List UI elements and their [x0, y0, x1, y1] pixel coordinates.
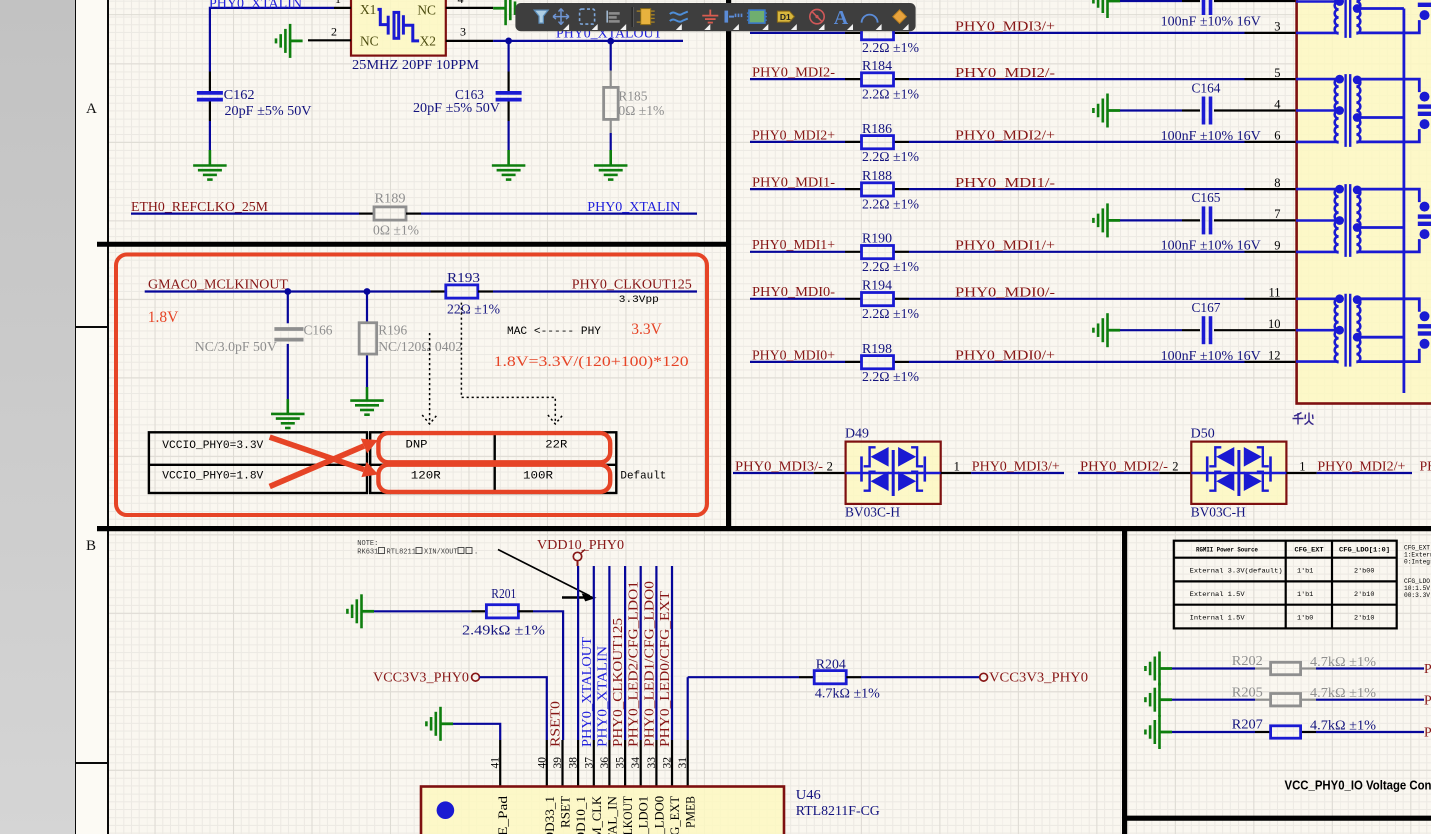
svg-text:39: 39 [552, 757, 564, 769]
junction at R185 [607, 38, 614, 45]
svg-text:4: 4 [1274, 97, 1281, 111]
svg-text:2'b10: 2'b10 [1354, 591, 1374, 599]
net name PHY0_MDI3/- [735, 458, 823, 473]
svg-text:CFG_LDO0: CFG_LDO0 [651, 796, 666, 834]
svg-text:VCCIO_PHY0=1.8V: VCCIO_PHY0=1.8V [162, 470, 263, 482]
value 2.2ohm 1% row pin 11 [862, 306, 919, 321]
annotation voltage divider formula [494, 353, 689, 370]
svg-text:PHY0_XTALIN: PHY0_XTALIN [594, 646, 609, 747]
pin number 1 of D49 [954, 459, 960, 473]
svg-text:PHY0_MDI0-: PHY0_MDI0- [752, 284, 835, 299]
net label PHY0_XTALIN (top) [209, 0, 302, 12]
U46 pin name RSET [558, 796, 573, 828]
pin number 11 on transformer [1268, 286, 1280, 300]
pin number 3 on transformer [1274, 20, 1280, 34]
table text VCCIO_PHY0=3.3V [162, 440, 263, 452]
svg-text:PHY0_MDI0/-: PHY0_MDI0/- [955, 285, 1055, 300]
svg-text:4.7kΩ ±1%: 4.7kΩ ±1% [1310, 654, 1377, 669]
label R194 [862, 278, 892, 293]
table header RGMII Power Source [1196, 547, 1258, 554]
value C162 20pF 5% 50V [225, 103, 312, 118]
svg-text:MAC <----- PHY: MAC <----- PHY [507, 326, 601, 338]
label D49 [845, 426, 869, 441]
floating toolbar [515, 3, 915, 31]
svg-text:CFG_EXT: CFG_EXT [1404, 545, 1430, 552]
U46 pin 38 [568, 740, 580, 787]
pin number 8 on transformer [1274, 176, 1280, 190]
svg-text:1:Externa: 1:Externa [1404, 552, 1431, 559]
svg-text:P: P [1424, 725, 1431, 740]
wire ground to E_Pad pin [453, 724, 500, 740]
svg-text:CFG_LDO: CFG_LDO [1404, 578, 1430, 585]
svg-text:NC: NC [360, 34, 379, 49]
wire to U46 pin 34 [640, 566, 642, 740]
svg-text:6: 6 [1274, 129, 1280, 143]
svg-text:C162: C162 [224, 88, 255, 103]
svg-text:D1: D1 [780, 12, 791, 22]
svg-text:25M_CLK: 25M_CLK [589, 795, 604, 834]
svg-text:1'b1: 1'b1 [1297, 591, 1313, 599]
wire C167 row [1120, 329, 1296, 331]
ground for R202 [1145, 652, 1172, 686]
svg-text:PHY0_MDI0/+: PHY0_MDI0/+ [955, 348, 1055, 363]
value R196 NC/120ohm 0402 [378, 339, 462, 354]
net label PHY0_LED2/CFG_LDO1 (vertical) [626, 581, 641, 747]
svg-text:CFG_LDO[1:0]: CFG_LDO[1:0] [1339, 547, 1390, 554]
wire to U46 pin 36 [608, 566, 610, 740]
capacitor C164 [1204, 97, 1211, 125]
annotation arrow to XTAL pins [498, 550, 595, 601]
ground for C165 [1093, 203, 1120, 237]
capacitor C167 [1204, 316, 1211, 344]
partial top capacitor [1204, 0, 1211, 15]
svg-text:D49: D49 [845, 426, 869, 441]
wire pin31 to R204 [688, 676, 814, 678]
value 2.2ohm 1% row pin 6 [862, 149, 919, 164]
transformer T2 [1296, 74, 1431, 147]
wire C165 row [1120, 219, 1296, 221]
table text Default [620, 470, 666, 482]
crystal X? component box [351, 0, 446, 56]
net label PHY0_LED1/CFG_LDO0 (vertical) [641, 581, 656, 747]
svg-text:D50: D50 [1191, 426, 1215, 441]
label R185 [618, 88, 647, 103]
wire PHY0 MDI row pin 11 [750, 298, 1296, 300]
capacitor C162 branch wire [209, 72, 211, 166]
U46 pin 41 [490, 740, 502, 787]
note text RK631/RTL8211 XIN XOUT [357, 540, 478, 557]
wire to U46 pin 31 from R204 [687, 677, 689, 740]
resistor R186 2.2ohm [862, 136, 894, 149]
TVS diode array D50 box [1191, 442, 1286, 504]
capacitor C162 [197, 93, 223, 100]
net label PHY0_XTALOUT (vertical) [579, 636, 594, 747]
value R201 2.49kohm 1% [462, 623, 546, 638]
zone letter A [86, 101, 106, 118]
wire to U46 pin 33 [655, 566, 657, 740]
wire PHY0_XTALIN to X? pin 1 [210, 8, 334, 72]
net name PHY0_MDI2+ [752, 127, 835, 142]
table header CFG_EXT [1295, 547, 1324, 554]
svg-text:2.2Ω ±1%: 2.2Ω ±1% [862, 306, 919, 321]
svg-text:CLKOUT: CLKOUT [620, 796, 635, 834]
value C167 100nF 10% 16V [1161, 348, 1261, 363]
svg-text:PHY0_MDI1/+: PHY0_MDI1/+ [955, 238, 1055, 253]
net name PHY0_MDI1/- [955, 175, 1055, 190]
svg-text:External 3.3V(default): External 3.3V(default) [1190, 568, 1283, 576]
svg-text:PHY0_MDI0+: PHY0_MDI0+ [752, 347, 835, 362]
value 2.2ohm 1% row pin 9 [862, 259, 919, 274]
svg-text:0:Integra: 0:Integra [1404, 559, 1431, 566]
ground for C164 [1093, 94, 1120, 128]
RGMII power source table [1174, 541, 1397, 629]
wire R193 to PHY0_CLKOUT125 [478, 290, 697, 292]
svg-text:VCC3V3_PHY0: VCC3V3_PHY0 [989, 670, 1088, 685]
resistor R205 4.7kohm [1271, 694, 1301, 706]
svg-text:RTL8211: RTL8211 [387, 549, 416, 557]
net name PHY0_MDI2/+ [955, 128, 1055, 143]
resistor R201 [486, 605, 518, 618]
wire to U46 pin 35 [624, 566, 626, 740]
wire to U46 pin 37 [593, 566, 595, 740]
svg-text:1'b1: 1'b1 [1297, 568, 1313, 576]
wire to U46 pin 32 [671, 566, 673, 740]
svg-text:VDD10_1: VDD10_1 [573, 796, 588, 834]
value C166 NC/3.0pF 50V [195, 339, 277, 354]
pin number 9 on transformer [1274, 239, 1280, 253]
wire PHY0 MDI row pin 8 [750, 188, 1296, 190]
value 2.2ohm 1% row pin 8 [862, 196, 919, 211]
net label PHY0_XTALIN (vertical) [594, 646, 609, 747]
crystal X? pin 3 [446, 25, 493, 41]
wire PHY0 MDI row pin 3 [750, 32, 1296, 34]
resistor R198 2.2ohm [862, 356, 894, 369]
svg-text:R189: R189 [375, 190, 406, 205]
part number RTL8211F-CG [796, 803, 880, 818]
net name ETH0_REFCLKO_25M [131, 199, 268, 214]
value top capacitor 100nF [1161, 14, 1261, 29]
transformer center tap rail [1403, 9, 1406, 394]
svg-text:4.7kΩ ±1%: 4.7kΩ ±1% [815, 686, 881, 701]
svg-text:NC/120Ω 0402: NC/120Ω 0402 [378, 339, 462, 354]
net label PHY0_LED0/CFG_EXT (vertical) [657, 590, 672, 747]
svg-text:37: 37 [583, 757, 595, 769]
zone tick 2 [75, 762, 108, 764]
svg-text:41: 41 [490, 757, 502, 769]
resistor R190 2.2ohm [862, 246, 894, 259]
svg-text:C166: C166 [304, 323, 333, 338]
red cross arrow to first row [270, 439, 378, 487]
value R207 4.7kohm 1% [1310, 717, 1377, 732]
ground below C162 [193, 166, 227, 180]
svg-text:10:1.5V: 10:1.5V [1404, 585, 1430, 592]
svg-text:C167: C167 [1192, 300, 1221, 315]
svg-text:C164: C164 [1192, 80, 1221, 95]
svg-text:PHY0_XTALIN: PHY0_XTALIN [587, 200, 680, 215]
ground below C166 [271, 414, 305, 428]
svg-text:22R: 22R [545, 439, 567, 451]
U46 pin 34 [630, 740, 642, 787]
wire C164 row [1120, 109, 1296, 111]
resistor R185 branch wire [610, 44, 612, 165]
label R204 [816, 656, 846, 671]
svg-text:R190: R190 [862, 231, 892, 246]
U46 pin 33 [646, 740, 658, 787]
label R184 [862, 58, 892, 73]
value R204 4.7kohm 1% [815, 686, 881, 701]
title VCC_PHY0_IO Voltage Control [1285, 778, 1431, 793]
svg-text:2'b10: 2'b10 [1354, 615, 1374, 623]
label R205 [1232, 684, 1263, 699]
IC U46 box [421, 787, 784, 834]
svg-text:CFG_LDO1: CFG_LDO1 [636, 796, 651, 834]
resistor R207 4.7kohm [1271, 726, 1301, 738]
svg-text:PHY0_MDI2/-: PHY0_MDI2/- [955, 65, 1055, 80]
table cell 120R [411, 470, 441, 482]
svg-text:PHY0_MDI2/+: PHY0_MDI2/+ [1317, 458, 1405, 473]
wire R201 to RSET pin [518, 611, 563, 740]
table cell DNP [406, 439, 428, 451]
svg-text:35: 35 [615, 757, 627, 769]
pin number 2 of D50 [1172, 459, 1178, 473]
wire R189 to PHY0_XTALIN [406, 213, 697, 215]
svg-text:VDD10_PHY0: VDD10_PHY0 [537, 537, 624, 552]
svg-text:2.49kΩ ±1%: 2.49kΩ ±1% [462, 623, 546, 638]
net name PHY0_MDI2- [752, 65, 835, 80]
dotted pointer to DNP cell [422, 333, 437, 424]
svg-text:R198: R198 [862, 341, 892, 356]
svg-text:R185: R185 [618, 88, 647, 103]
svg-text:PHY0_MDI1+: PHY0_MDI1+ [752, 237, 835, 252]
net name PHY0_CLKOUT125 [572, 277, 692, 292]
svg-text:1: 1 [335, 0, 341, 6]
table cell 100R [523, 470, 553, 482]
crystal X? pin 4 [446, 0, 493, 8]
resistor R189 (0 ohm) [374, 207, 406, 220]
ground for R205 [1145, 683, 1172, 717]
svg-text:.: . [474, 549, 478, 557]
pin number 4 on transformer [1274, 97, 1281, 111]
svg-text:R207: R207 [1232, 717, 1263, 732]
resistor R196 (NC) [359, 323, 377, 354]
crystal pin names X1 NC NC X2 [360, 2, 436, 48]
junction at C163 [505, 38, 512, 45]
table row External 3.3V [1190, 568, 1375, 576]
svg-text:2: 2 [331, 25, 337, 39]
wire PHY0_MDI3/+ [941, 472, 1064, 474]
svg-text:RSET: RSET [558, 796, 573, 828]
svg-text:0Ω ±1%: 0Ω ±1% [618, 103, 664, 118]
red highlight around 120R/100R row [378, 465, 610, 492]
svg-text:NC: NC [417, 3, 436, 18]
svg-text:GMAC0_MCLKINOUT: GMAC0_MCLKINOUT [148, 277, 289, 292]
value 2.2ohm 1% row pin 12 [862, 369, 919, 384]
ground below C163 [492, 166, 525, 180]
wire R207 row [1172, 731, 1424, 733]
svg-text:PHY0_MDI2+: PHY0_MDI2+ [752, 127, 835, 142]
svg-text:32: 32 [662, 757, 674, 769]
value 2.2ohm 1% row pin 5 [862, 86, 919, 101]
svg-text:9: 9 [1274, 239, 1280, 253]
svg-text:20pF ±5% 50V: 20pF ±5% 50V [413, 100, 500, 115]
svg-text:3.3V: 3.3V [631, 321, 662, 338]
svg-text:1: 1 [954, 459, 960, 473]
wire PHY0 MDI row pin 6 [750, 141, 1296, 143]
svg-text:100R: 100R [523, 470, 553, 482]
capacitor C163 branch wire [508, 44, 510, 165]
svg-text:RSET0: RSET0 [548, 701, 563, 747]
U46 pin1 dot [437, 801, 455, 819]
net name PHY0_MDI1- [752, 175, 835, 190]
svg-text:R204: R204 [816, 656, 846, 671]
svg-text:3: 3 [1274, 20, 1280, 34]
net name PHY0_MDI0- [752, 284, 835, 299]
svg-text:RK631: RK631 [357, 549, 378, 557]
net name PHY0_MDI0/- [955, 285, 1055, 300]
partial net name at right edge [1420, 458, 1431, 473]
U46 pin 36 [599, 740, 611, 787]
U46 pin name VDD33_1 [542, 796, 557, 834]
svg-text:R184: R184 [862, 58, 892, 73]
svg-text:VCC_PHY0_IO Voltage Con: VCC_PHY0_IO Voltage Con [1285, 778, 1431, 793]
net name PHY0_MDI2/+ [1317, 458, 1405, 473]
section divider horizontal 2 [97, 526, 1431, 531]
pin number 2 of D49 [827, 459, 833, 473]
svg-text:4.7kΩ ±1%: 4.7kΩ ±1% [1310, 717, 1377, 732]
capacitor C163 [496, 93, 522, 100]
svg-text:RGMII Power Source: RGMII Power Source [1196, 547, 1258, 554]
label R207 [1232, 717, 1263, 732]
wire PHY0_XTALOUT [493, 40, 683, 42]
svg-text:2.2Ω ±1%: 2.2Ω ±1% [862, 86, 919, 101]
label C165 [1192, 190, 1221, 205]
svg-text:1.8V: 1.8V [148, 309, 179, 326]
svg-text:NC/3.0pF 50V: NC/3.0pF 50V [195, 339, 277, 354]
svg-text:R186: R186 [862, 121, 892, 136]
svg-text:R196: R196 [378, 323, 407, 338]
label R188 [862, 168, 892, 183]
diodes inside D49 [846, 447, 941, 496]
svg-text:PHY0_CLKOUT125: PHY0_CLKOUT125 [572, 277, 692, 292]
value R185 0ohm 1% [618, 103, 664, 118]
svg-text:0Ω ±1%: 0Ω ±1% [373, 222, 419, 237]
net label RSET0 (vertical) [548, 701, 563, 747]
svg-text:BV03C-H: BV03C-H [1191, 505, 1246, 520]
value R193 22ohm 1% [447, 301, 500, 316]
svg-text:PHY0_MDI2-: PHY0_MDI2- [752, 65, 835, 80]
zone letter B [86, 538, 106, 555]
ground below R196 [350, 401, 384, 415]
section divider horizontal 3 (bottom-right frame) [1125, 816, 1431, 821]
resistor R185 (DNP) [604, 87, 619, 119]
wire ETH0_REFCLKO_25M to R189 [131, 213, 374, 215]
svg-text:VCC3V3_PHY0: VCC3V3_PHY0 [373, 670, 469, 685]
value 2.2ohm 1% row pin 3 [862, 40, 919, 55]
crystal X? pin 1 [334, 0, 351, 8]
power port VCC3V3_PHY0 (right) [980, 670, 1088, 685]
svg-text:VDD33_1: VDD33_1 [542, 796, 557, 834]
svg-text:DNP: DNP [406, 439, 428, 451]
svg-text:P: P [1424, 661, 1431, 676]
partial net name right of R207 [1424, 725, 1431, 740]
net name GMAC0_MCLKINOUT [148, 277, 289, 292]
net name PHY0_MDI3/+ [955, 19, 1055, 34]
annotation 1.8V [148, 309, 179, 326]
svg-text:PHY0_LED1/CFG_LDO0: PHY0_LED1/CFG_LDO0 [641, 581, 656, 747]
wire PHY0 MDI row pin 5 [750, 78, 1296, 80]
U46 pin 35 [615, 740, 627, 787]
svg-text:2.2Ω ±1%: 2.2Ω ±1% [862, 40, 919, 55]
net name PHY0_MDI2/- [1080, 458, 1168, 473]
pin number 7 on transformer [1274, 207, 1280, 221]
partial top capacitor row wire [1120, 0, 1296, 2]
label R196 [378, 323, 407, 338]
ground for R207 [1145, 715, 1172, 749]
U46 pin name CFG_LDO0 [651, 796, 666, 834]
resistor R196 branch wire [366, 292, 368, 401]
wire R202 row [1172, 667, 1424, 669]
wire GMAC0_MCLKINOUT to R193 [145, 290, 446, 292]
note MAC PHY direction [507, 326, 601, 338]
value C165 100nF 10% 16V [1161, 238, 1261, 253]
svg-text:36: 36 [599, 757, 611, 769]
svg-text:CFG_EXT: CFG_EXT [667, 796, 682, 834]
crystal symbol [378, 9, 420, 41]
table header CFG_LDO [1339, 547, 1390, 554]
U46 pin 40 [536, 740, 548, 787]
svg-text:C165: C165 [1192, 190, 1221, 205]
svg-text:22Ω ±1%: 22Ω ±1% [447, 301, 500, 316]
U46 pin 32 [662, 740, 674, 787]
net name PHY0_MDI3/+ [972, 458, 1060, 473]
svg-text:R188: R188 [862, 168, 892, 183]
partial top capacitor row ground [1093, 0, 1120, 18]
label R189 [375, 190, 406, 205]
pin number 5 on transformer [1274, 66, 1280, 80]
label C163 [455, 88, 484, 103]
ground at crystal pin 2 [276, 24, 303, 58]
crystal X? pin 2 and rotated ground [308, 25, 351, 41]
wire R205 row [1172, 699, 1424, 701]
U46 pin name CFG_LDO1 [636, 796, 651, 834]
svg-text:PHY0_XTALIN: PHY0_XTALIN [209, 0, 302, 12]
svg-text:PHY0_MDI2/+: PHY0_MDI2/+ [955, 128, 1055, 143]
wire PHY0_MDI3/- [733, 472, 846, 474]
zone tick 1 [75, 326, 108, 328]
value R189 0ohm 1% [373, 222, 419, 237]
svg-text:3: 3 [460, 25, 466, 39]
svg-text:VCCIO_PHY0=3.3V: VCCIO_PHY0=3.3V [162, 440, 263, 452]
section divider vertical 1 [726, 0, 731, 529]
diodes inside D50 [1191, 447, 1286, 496]
value C164 100nF 10% 16V [1161, 128, 1261, 143]
svg-text:R205: R205 [1232, 684, 1263, 699]
svg-text:A: A [834, 7, 849, 29]
junction at C166 [284, 288, 291, 295]
svg-text:20pF ±5% 50V: 20pF ±5% 50V [225, 103, 312, 118]
section divider vertical 2 [1122, 529, 1127, 834]
svg-text:U46: U46 [796, 787, 821, 802]
svg-text:8: 8 [1274, 176, 1280, 190]
net name PHY0_MDI1+ [752, 237, 835, 252]
crystal value 25MHZ 20PF 10PPM [352, 58, 480, 73]
wire PHY0_MDI2/- [1078, 472, 1191, 474]
table text VCCIO_PHY0=1.8V [162, 470, 263, 482]
svg-text:PHY0_LED0/CFG_EXT: PHY0_LED0/CFG_EXT [657, 590, 672, 747]
red annotation box [116, 255, 707, 516]
U46 pin 31 [677, 740, 689, 787]
svg-text:PMEB: PMEB [683, 796, 698, 828]
